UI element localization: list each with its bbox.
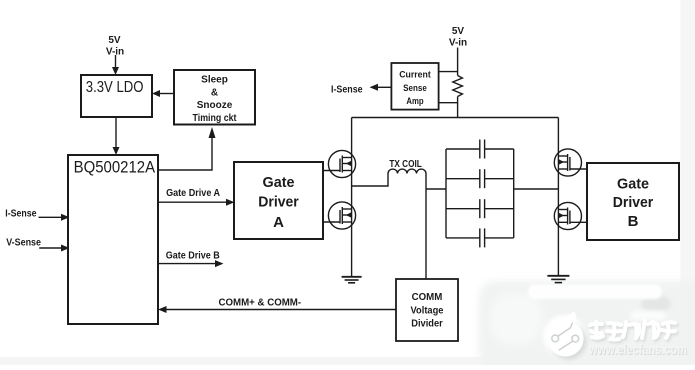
wire I-Sense into BQ500212A (39, 216, 63, 218)
arrow Gate Drive A into driver A (226, 199, 235, 206)
op-amp U4 Current Sense Amp box (391, 63, 438, 110)
wire capacitor bank to right half-bridge (514, 188, 559, 190)
resistor R-sense zigzag (453, 76, 463, 97)
wire right half-bridge rail (557, 118, 559, 276)
arrowheads (61, 67, 378, 313)
ground (left half-bridge) (342, 277, 362, 283)
svg-text:&: & (211, 87, 218, 98)
node capacitor bank left rail (445, 149, 447, 238)
arrow Gate Drive B (215, 260, 224, 267)
wire I-Sense from current sense amp (378, 86, 392, 88)
svg-text:Driver: Driver (613, 194, 654, 211)
svg-text:B: B (628, 213, 639, 230)
wire BQ500212A to Sleep/Snooze timing (158, 138, 212, 171)
svg-text:TX COIL: TX COIL (389, 159, 421, 170)
controller U1 BQ500212A box (68, 155, 158, 324)
svg-text:Sleep: Sleep (201, 75, 228, 86)
svg-text:A: A (273, 214, 284, 231)
wire switch node to TX coil (352, 174, 388, 187)
wire gate B upper MOSFET (570, 168, 587, 170)
wire Sleep/Snooze to LDO (160, 93, 175, 95)
wire LDO output down to BQ500212A (115, 117, 117, 148)
wire V-Sense into BQ500212A (39, 247, 62, 249)
capacitor C3 (446, 199, 514, 218)
svg-text:Amp: Amp (406, 96, 423, 107)
svg-text:Sense: Sense (403, 83, 427, 94)
capacitor C1 (446, 140, 514, 159)
watermark backdrop wash (479, 281, 695, 370)
svg-text:Snooze: Snooze (197, 100, 233, 111)
arrow I-Sense into BQ (61, 214, 70, 221)
gate driver U3 Gate Driver B box (587, 163, 679, 240)
node capacitor bank right rail (513, 149, 515, 238)
arrow into LDO right (from sleep) (152, 90, 160, 97)
wire gate A upper MOSFET (323, 170, 340, 172)
svg-text:Driver: Driver (258, 193, 299, 210)
watermark logo (elecfans) (548, 312, 688, 360)
svg-text:Timing ckt: Timing ckt (193, 113, 238, 124)
wire sense resistor to 5V bus (457, 97, 459, 118)
svg-text:BQ500212A: BQ500212A (74, 158, 156, 177)
wire gate A lower MOSFET (323, 221, 340, 223)
arrow V-Sense into BQ (61, 245, 70, 252)
transistor Q1 upper-left MOSFET (328, 150, 355, 177)
transistor Q4 lower-right MOSFET (554, 202, 581, 229)
wire 5V to LDO (left supply drop) (115, 55, 117, 68)
wire 5V top bus (352, 117, 559, 119)
capacitor C4 (446, 228, 514, 247)
svg-text:V-in: V-in (449, 38, 467, 49)
svg-text:3.3V LDO: 3.3V LDO (86, 79, 144, 96)
wire current sense amp bottom tap (439, 102, 458, 104)
5V V-in supply label (right) (449, 26, 467, 49)
arrow COMM into BQ (158, 306, 167, 313)
svg-text:5V: 5V (452, 26, 465, 37)
ground (right half-bridge) (547, 276, 569, 283)
svg-text:Gate Drive A: Gate Drive A (166, 188, 220, 199)
arrow into Sleep/Snooze bottom (209, 127, 216, 138)
svg-text:www.elecfans.com: www.elecfans.com (588, 341, 687, 357)
svg-text:Divider: Divider (411, 319, 443, 330)
svg-text:V-Sense: V-Sense (6, 237, 41, 248)
svg-text:Gate: Gate (263, 174, 295, 191)
inductor TX COIL (388, 169, 426, 173)
wire 5V right supply to sense resistor (457, 48, 459, 76)
wire left half-bridge rail (351, 118, 353, 277)
capacitor C2 (446, 169, 514, 188)
svg-text:5V: 5V (108, 35, 121, 46)
svg-text:COMM+ & COMM-: COMM+ & COMM- (219, 298, 302, 309)
wire coil output down to COMM divider (425, 174, 427, 280)
svg-text:Gate Drive B: Gate Drive B (166, 250, 220, 261)
arrow into LDO top (112, 67, 119, 75)
comm voltage divider block (396, 279, 458, 341)
transistor Q2 lower-left MOSFET (328, 202, 355, 229)
svg-text:Voltage: Voltage (411, 306, 444, 317)
svg-text:Gate: Gate (617, 175, 649, 192)
transistor Q3 upper-right MOSFET (554, 149, 581, 176)
gate driver U2 Gate Driver A box (234, 162, 323, 239)
arrow I-Sense out of current sense amp (370, 84, 379, 91)
regulator 3.3V LDO box (81, 75, 152, 117)
wire current sense amp top tap (439, 71, 458, 73)
svg-text:Current: Current (399, 70, 431, 81)
5V V-in supply label (left) (106, 35, 124, 57)
svg-text:V-in: V-in (106, 46, 124, 57)
arrow into BQ500212A top (113, 147, 120, 155)
wire COMM+ & COMM- from divider to BQ500212A (166, 309, 397, 311)
svg-text:I-Sense: I-Sense (331, 84, 363, 95)
wire gate B lower MOSFET (570, 221, 587, 223)
wire Gate Drive A (158, 201, 227, 203)
svg-text:COMM: COMM (412, 292, 443, 303)
wire coil node to capacitor bank (426, 188, 446, 190)
svg-text:I-Sense: I-Sense (5, 208, 37, 219)
sleep & snooze timing block (174, 70, 255, 125)
wire Gate Drive B (158, 263, 216, 265)
